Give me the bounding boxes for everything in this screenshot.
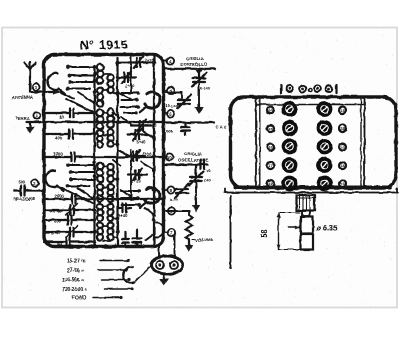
can inner wall left2 (259, 99, 261, 187)
flange tick right (396, 189, 398, 193)
wiper arc range switch (123, 267, 134, 283)
coil L1 (97, 64, 104, 71)
wire range to jack (136, 266, 151, 281)
capacitor 400 (44, 130, 95, 139)
antenna arrowhead (53, 89, 60, 94)
capacitor 50 (201, 160, 205, 169)
arrowhead controllo feed (196, 70, 202, 75)
trimmer screw B4 (318, 159, 330, 171)
numbered pads right (339, 107, 346, 188)
trimmers grid (283, 103, 330, 190)
resistor VOLUME (186, 215, 193, 240)
wire diagonals mid (113, 92, 154, 215)
trimmer screw A3 (283, 140, 295, 152)
trimmer screw B5 (318, 177, 330, 189)
shaft upper (301, 217, 314, 234)
wiper arm S2 (140, 107, 147, 113)
contacts S4 (121, 191, 139, 205)
wiper arm S4 (140, 202, 147, 208)
capacitor 2000 (44, 195, 164, 204)
capacitor 80 lower (44, 238, 95, 247)
terminal 1 terra (33, 112, 40, 119)
chassis flange line (225, 192, 399, 194)
wire 6 to resistor (164, 211, 190, 215)
trimmer 2+20 c (131, 120, 152, 132)
can inner wall left (255, 99, 257, 187)
antenna symbol (25, 62, 36, 92)
wiper arc S4 (144, 188, 159, 204)
stub wires right terminals (164, 61, 168, 233)
trimmer 5+40 mid (128, 129, 148, 141)
trimmer screw B3 (318, 140, 330, 152)
pin lug 4 (326, 85, 333, 92)
phono jack (152, 256, 183, 274)
trimmer screw B2 (318, 122, 330, 134)
wiper arc S1 (47, 73, 59, 90)
wiper arc S3 (45, 170, 57, 187)
diagonal wires S1 (60, 92, 95, 113)
wire oscillatore (164, 163, 209, 165)
wire griglia controllo (164, 68, 216, 70)
wire range 3 (102, 279, 129, 281)
bushing nut (297, 195, 315, 211)
dimension 6.35 arrow (288, 227, 299, 229)
pin lug 2 (299, 85, 306, 92)
can inner wall right2 (360, 99, 362, 187)
wire top horizontal (118, 62, 155, 64)
wire border bottom to jack (158, 247, 160, 258)
contacts S3 (68, 165, 95, 186)
wire bus x117 (116, 58, 118, 246)
coil L2 (97, 87, 104, 94)
terminal 3 antenna (32, 83, 39, 90)
trimmer screw B1 (318, 103, 330, 115)
extra junction dots buses (93, 61, 156, 248)
trimmer screw A5 (283, 177, 295, 189)
pin small circle (308, 88, 311, 91)
terminal 2 reazione (31, 179, 38, 186)
ground right lower (195, 202, 197, 205)
ground jack (163, 274, 165, 279)
trimmer 10-140 lower (177, 95, 191, 109)
misc interior stub wires (95, 67, 118, 241)
trimmer 5+40 left (44, 228, 95, 237)
terminal 6 (168, 207, 175, 214)
capacitor 005 (181, 123, 190, 135)
terra wire (26, 121, 164, 123)
shaft lower (301, 234, 314, 250)
capacitor 500 reazione (14, 186, 44, 196)
capacitor 80 (44, 109, 95, 118)
coil L11 (108, 130, 114, 136)
flange tick left (225, 189, 227, 193)
capacitor 5-140 (133, 230, 142, 246)
side drop line (230, 196, 232, 268)
coil L8 (97, 223, 103, 229)
pin lug 3 (314, 85, 321, 92)
schematic border box (44, 55, 164, 247)
wire to ground osc (195, 181, 197, 202)
trimmer 8-50 (175, 184, 189, 198)
wiper arm S3 (57, 186, 64, 192)
wire bus x154 (153, 56, 155, 246)
wire trimmer to ground (198, 82, 200, 104)
terminal 8 (167, 186, 174, 193)
coil L4 (97, 130, 103, 136)
coil L7 (97, 204, 103, 210)
pin lug 1 (286, 85, 293, 92)
trimmer screw A4 (283, 159, 295, 171)
trimmer 10-140 upper (192, 69, 207, 87)
coil L10 (107, 109, 114, 116)
trimmer 2+20 a (128, 57, 148, 69)
terminal 3r (167, 87, 174, 94)
ground right upper (198, 104, 200, 107)
shaft neck (302, 211, 310, 217)
trimmer screw A2 (283, 122, 295, 134)
coil L6 (97, 184, 103, 190)
can bottom heavy bar (236, 186, 390, 190)
trimmer 140 (189, 165, 203, 186)
capacitor 330 (44, 216, 95, 225)
numbered pads left (267, 107, 274, 188)
top pin lug tick left (280, 85, 282, 93)
coil L5 (97, 163, 104, 170)
can inner wall right (364, 99, 366, 187)
trimmer 2+20 b (118, 72, 137, 84)
terminal 5 (167, 110, 174, 117)
diagonal wires S3 (56, 186, 95, 204)
can inner top line (256, 104, 365, 106)
wiper arm S1 (59, 89, 66, 94)
wire bus x94 (93, 66, 95, 246)
dimension 58 (278, 213, 280, 250)
coil L3 (97, 110, 104, 117)
terminal 10 (166, 153, 173, 160)
wire range 4 (104, 288, 132, 290)
ground resistor (188, 240, 190, 245)
wire range 2 (98, 269, 126, 271)
capacitor 5+40 mid-low (118, 204, 131, 213)
wire S5 arm (146, 234, 154, 240)
contacts S2 (121, 93, 138, 113)
junction dots (93, 61, 156, 244)
trimmer 20+60 (44, 206, 95, 215)
trimmer 2+20 d (126, 150, 145, 162)
wire from 3 (164, 93, 183, 99)
antenna wire (30, 91, 58, 93)
terminal 4 (167, 57, 174, 64)
capacitor 15 (122, 232, 129, 246)
wire 7 to jack (174, 236, 176, 259)
wire bus x131 partial (130, 56, 132, 92)
coil L14 (108, 204, 114, 210)
wire range 1 (100, 260, 128, 262)
top pin lug tick right (335, 85, 337, 93)
contacts S1 (68, 67, 95, 89)
capacitor 1000 (44, 153, 164, 162)
coil L13 (108, 184, 114, 190)
ground terra (29, 122, 31, 128)
wire CAV (164, 121, 215, 123)
can outline (231, 97, 397, 188)
coil L9 (107, 75, 113, 81)
trimmer screw A1 (283, 103, 295, 115)
terminal 7 (168, 229, 175, 236)
wire volume label leader (192, 239, 195, 241)
trimmer 2+20 e (128, 169, 147, 181)
wire range 5 (93, 297, 121, 299)
wiper arc S2 (145, 92, 160, 108)
coil L12 (107, 164, 113, 170)
coil L15 (108, 223, 114, 229)
